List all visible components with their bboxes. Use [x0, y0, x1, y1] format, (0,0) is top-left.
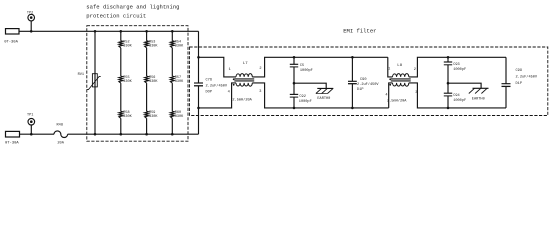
resistor R59 330K	[145, 111, 149, 118]
svg-text:1: 1	[388, 68, 390, 72]
svg-text:L7: L7	[243, 62, 248, 66]
choke L8 phase dots	[389, 78, 391, 80]
svg-text:C5: C5	[300, 64, 304, 68]
wire C92 to rail	[293, 97, 295, 108]
capacitor C92 1000pF	[290, 93, 298, 95]
svg-text:330K: 330K	[175, 45, 184, 49]
resistor R54 330K	[170, 41, 174, 48]
svg-text:2.5mH/20A: 2.5mH/20A	[232, 97, 252, 102]
svg-text:DOP: DOP	[206, 90, 212, 94]
wire L line	[19, 30, 199, 32]
wire resistor column 4	[171, 31, 173, 41]
svg-text:330K: 330K	[175, 115, 184, 119]
svg-text:EARTH0: EARTH0	[317, 97, 330, 101]
svg-text:4: 4	[228, 90, 230, 94]
fuse 0T-30A (bottom)	[6, 131, 20, 137]
wire bottom rail mid	[294, 107, 352, 109]
svg-text:C93: C93	[453, 63, 459, 67]
fusible resistor R48 20A	[54, 131, 68, 138]
choke L8 bottom winding	[393, 83, 409, 86]
svg-text:20A: 20A	[57, 141, 64, 145]
resistor R60 330K	[170, 111, 174, 118]
capacitor C76 2.2uF/450V	[194, 82, 203, 84]
node C5 top	[293, 56, 296, 59]
choke L7 phase dots	[233, 78, 235, 80]
capacitor C99 2.2uF/450V	[502, 83, 511, 85]
svg-text:1000pF: 1000pF	[453, 68, 466, 72]
wire L8 pin2 to rail	[409, 57, 448, 77]
terminal TP2	[28, 14, 35, 21]
wire L7 pin2 to rail	[252, 57, 294, 77]
node live rail start	[197, 56, 200, 59]
node C92 bottom	[293, 107, 296, 110]
dashed box: EMI filter	[190, 47, 548, 116]
wire C76 down to bottom corner	[198, 86, 200, 134]
svg-text:2: 2	[259, 67, 261, 71]
wire to earth 2	[448, 83, 481, 88]
svg-text:2.2uF/450V: 2.2uF/450V	[206, 84, 228, 89]
choke L8 top winding	[393, 74, 409, 77]
resistor R55 330K	[119, 76, 123, 83]
earth symbol EARTH0 (2)	[473, 87, 489, 89]
node C94 bottom	[447, 107, 450, 110]
junction top terminal	[30, 30, 33, 33]
resistor R52 330K	[119, 41, 123, 48]
varistor RV1	[92, 74, 97, 87]
wire varistor column	[94, 31, 96, 134]
svg-text:D1P: D1P	[516, 82, 522, 86]
svg-text:D1P: D1P	[357, 88, 363, 92]
wire top rail mid	[294, 56, 352, 58]
fuse 0T-30A (top)	[6, 29, 20, 34]
wire rail down to L8 pin1	[388, 57, 393, 77]
node column 2 top	[120, 30, 123, 33]
svg-text:4: 4	[385, 93, 387, 97]
node C5/C92 mid	[293, 82, 296, 85]
svg-text:2.5mH/20A: 2.5mH/20A	[387, 98, 407, 103]
svg-text:330K: 330K	[123, 80, 132, 84]
choke L7 top winding	[236, 74, 252, 77]
wire top corner down to C76	[198, 31, 200, 83]
svg-text:0T-30A: 0T-30A	[4, 40, 18, 44]
node varistor top	[94, 30, 97, 33]
capacitor C5 1000pF	[290, 63, 298, 65]
wire TP2 to top line	[30, 21, 32, 32]
junction bottom terminal	[30, 133, 33, 136]
node C93 top	[447, 56, 450, 59]
svg-text:2.2uF/450V: 2.2uF/450V	[516, 74, 538, 79]
terminal TP1	[28, 118, 35, 125]
svg-text:2.2uF/450V: 2.2uF/450V	[357, 82, 379, 87]
node column 4 bottom	[171, 133, 174, 136]
svg-text:330K: 330K	[149, 115, 158, 119]
svg-text:EMI filter: EMI filter	[343, 27, 376, 34]
wire resistor column 2	[120, 31, 122, 41]
node column 3 bottom	[145, 133, 148, 136]
wire between C5 and C92	[293, 67, 295, 95]
node C93/C94 mid	[447, 82, 450, 85]
wire to earth 1	[294, 83, 326, 88]
wire bottom rail right	[448, 107, 506, 109]
svg-text:protection circuit: protection circuit	[86, 12, 146, 19]
node column 3 top	[145, 30, 148, 33]
svg-text:R48: R48	[57, 124, 63, 128]
wire rail down to C99	[505, 57, 507, 83]
svg-text:L8: L8	[397, 64, 402, 68]
capacitor C94 1000pF	[444, 92, 452, 94]
wire C94 to rail	[447, 96, 449, 108]
resistor R57 330K	[170, 76, 174, 83]
dashed box: safe discharge and lightning protection circuit	[87, 26, 188, 142]
svg-text:1: 1	[229, 68, 231, 72]
wire L7 pin3 to rail	[252, 83, 294, 108]
capacitor C90 2.2uF/450V	[351, 57, 353, 81]
wire TP1 to bottom line	[30, 125, 32, 134]
wire L8 pin3 to rail	[409, 83, 448, 108]
svg-text:1000pF: 1000pF	[453, 99, 466, 103]
choke L7 bottom winding	[236, 83, 252, 86]
svg-text:1000pF: 1000pF	[299, 100, 312, 104]
node column 4 top	[171, 30, 174, 33]
wire top rail right	[448, 56, 506, 58]
wire N line right	[68, 133, 199, 135]
node column 2 bottom	[120, 133, 123, 136]
svg-text:RV1: RV1	[78, 73, 84, 77]
wire bottom rail to L7 pin4	[199, 83, 237, 108]
node C90 bottom	[351, 107, 354, 110]
svg-text:3: 3	[259, 90, 261, 94]
resistor R58 330K	[119, 111, 123, 118]
earth symbol EARTH0 (1)	[317, 87, 333, 89]
choke L8 core	[391, 78, 411, 80]
svg-text:C94: C94	[453, 94, 459, 98]
svg-text:330K: 330K	[149, 45, 158, 49]
svg-text:330K: 330K	[123, 115, 132, 119]
choke L7 core	[234, 78, 254, 80]
node varistor bottom	[94, 133, 97, 136]
resistor R56 330K	[145, 76, 149, 83]
wire rail up to L8 pin4	[389, 83, 393, 108]
svg-text:0T-30A: 0T-30A	[5, 142, 19, 146]
capacitor C93 1000pF	[444, 61, 452, 63]
svg-text:C90: C90	[360, 78, 366, 82]
svg-text:TP2: TP2	[27, 11, 33, 15]
wire N line left	[20, 133, 55, 135]
resistor R53 330K	[145, 41, 149, 48]
Y-cap column C93/C94	[447, 57, 449, 62]
svg-text:1000pF: 1000pF	[300, 69, 313, 73]
svg-text:safe discharge and lightning: safe discharge and lightning	[86, 4, 179, 11]
wire top rail to L7	[199, 57, 237, 77]
wire rail up to C99	[505, 86, 507, 108]
svg-text:2: 2	[414, 68, 416, 72]
svg-text:C92: C92	[299, 95, 305, 99]
svg-text:C99: C99	[516, 69, 522, 73]
wire between C93 and C94	[447, 65, 449, 93]
node C90 top	[351, 56, 354, 59]
svg-text:330K: 330K	[175, 80, 184, 84]
svg-text:TP1: TP1	[27, 113, 33, 117]
svg-text:EARTH0: EARTH0	[472, 97, 485, 101]
svg-text:330K: 330K	[123, 45, 132, 49]
svg-text:C76: C76	[206, 79, 212, 83]
Y-cap column C5/C92	[293, 57, 295, 64]
node neutral rail start	[197, 107, 200, 110]
wire resistor column 3	[146, 31, 148, 41]
svg-text:330K: 330K	[149, 80, 158, 84]
